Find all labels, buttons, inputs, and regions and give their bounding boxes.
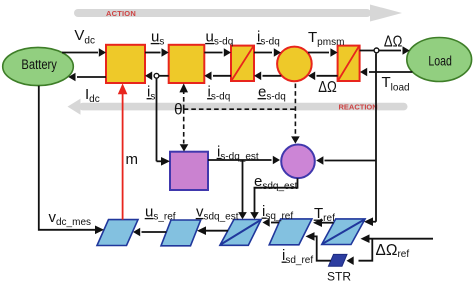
wire S1 to battery return (Idc): [68, 73, 106, 82]
wire B3 to S2 return (is-dq): [204, 72, 231, 81]
label us: [151, 28, 165, 47]
STR block (dark blue parallelogram): [328, 254, 347, 266]
parallelogram P3 (diagonal): [220, 220, 261, 246]
svg-text:Load: Load: [428, 52, 452, 68]
REACTION arrow bar: [68, 99, 408, 115]
ACTION arrow bar: [74, 5, 402, 22]
wire P4 to P3 (isq_ref): [263, 218, 280, 227]
parallelogram P5 (speed controller, diagonal): [322, 219, 365, 245]
label isq_ref: [262, 203, 294, 222]
wire P3 to P2 (vsdq_est): [197, 226, 228, 235]
label is-dq bottom: [207, 84, 230, 103]
label us_ref: [145, 203, 176, 222]
svg-text:REACTION: REACTION: [339, 103, 378, 112]
red modulation wire m: [118, 83, 128, 219]
svg-text:ΔΩ: ΔΩ: [318, 79, 337, 96]
wire STR to P4 (isd_ref): [306, 232, 331, 261]
label is-dq_est: [217, 143, 259, 162]
node on is return line: [154, 73, 159, 78]
label is: [147, 84, 156, 103]
wire branch to purple circle: [316, 156, 376, 165]
wire S1 to S2 (us): [145, 48, 169, 57]
wire feedback vertical from dOmega node: [364, 53, 376, 226]
dashed theta wire from C1 down to purple circle: [291, 84, 300, 144]
wire S2 to S1 return (is): [145, 72, 169, 81]
svg-text:ΔΩ: ΔΩ: [384, 34, 403, 51]
svg-text:STR: STR: [327, 270, 351, 283]
wire esdq_est path circle bottom to P3: [250, 178, 297, 219]
svg-text:Battery: Battery: [21, 57, 57, 72]
wire branch down to P3: [238, 160, 247, 219]
label is-dq top: [257, 28, 280, 47]
transform block B4 (yellow, diagonal): [338, 46, 360, 81]
wire C1 to B4 (Tpmsm): [308, 48, 338, 57]
battery ellipse: [3, 47, 74, 85]
wire battery to S1 (Vdc): [62, 48, 106, 57]
wire P5 to P4 (Tref): [313, 218, 334, 227]
wire B4 to Load with node (dOmega): [360, 46, 410, 55]
load ellipse: [407, 38, 472, 82]
wire P2 to P1 (us_ref): [133, 228, 166, 237]
converter block S2 (yellow): [169, 45, 205, 83]
label vsdq_est: [196, 203, 239, 222]
svg-text:ACTION: ACTION: [106, 9, 136, 18]
estimator circle (purple): [281, 145, 315, 179]
estimator square (purple): [170, 152, 208, 190]
label esdq_est: [254, 173, 298, 192]
dashed theta horizontal wire: [184, 108, 296, 110]
wire B4 to C1 return (dOmega): [308, 72, 338, 81]
wire is node down to purple square: [157, 79, 171, 166]
label isd_ref: [282, 247, 314, 266]
dashed theta wire down to purple square: [180, 109, 189, 151]
wire battery measurement vdc_mes: [39, 86, 104, 234]
node on dOmega line: [374, 48, 379, 53]
wire Load to B4 (Tload): [360, 68, 412, 77]
wire purple square to purple circle (is-dq_est): [208, 156, 280, 165]
parallelogram P2: [161, 220, 201, 246]
label us-dq: [205, 28, 233, 47]
label Tref: [314, 205, 335, 224]
wire dOmega_ref input: [347, 234, 434, 265]
machine circle C1 (yellow): [277, 47, 312, 82]
dashed theta wire up to S2: [179, 83, 188, 109]
svg-text:m: m: [126, 151, 139, 168]
label es-dq: [258, 84, 286, 103]
parallelogram P4: [269, 219, 312, 245]
svg-text:θ: θ: [174, 101, 183, 118]
transform block B3 (yellow, diagonal): [231, 46, 254, 81]
converter block S1 (yellow): [106, 45, 145, 83]
wire S2 to B3 (us-dq): [204, 48, 231, 57]
parallelogram P1 (modulator): [97, 220, 138, 246]
wire B3 to C1 (is-dq): [254, 48, 281, 57]
wire C1 to B3 return (es-dq): [254, 72, 281, 81]
